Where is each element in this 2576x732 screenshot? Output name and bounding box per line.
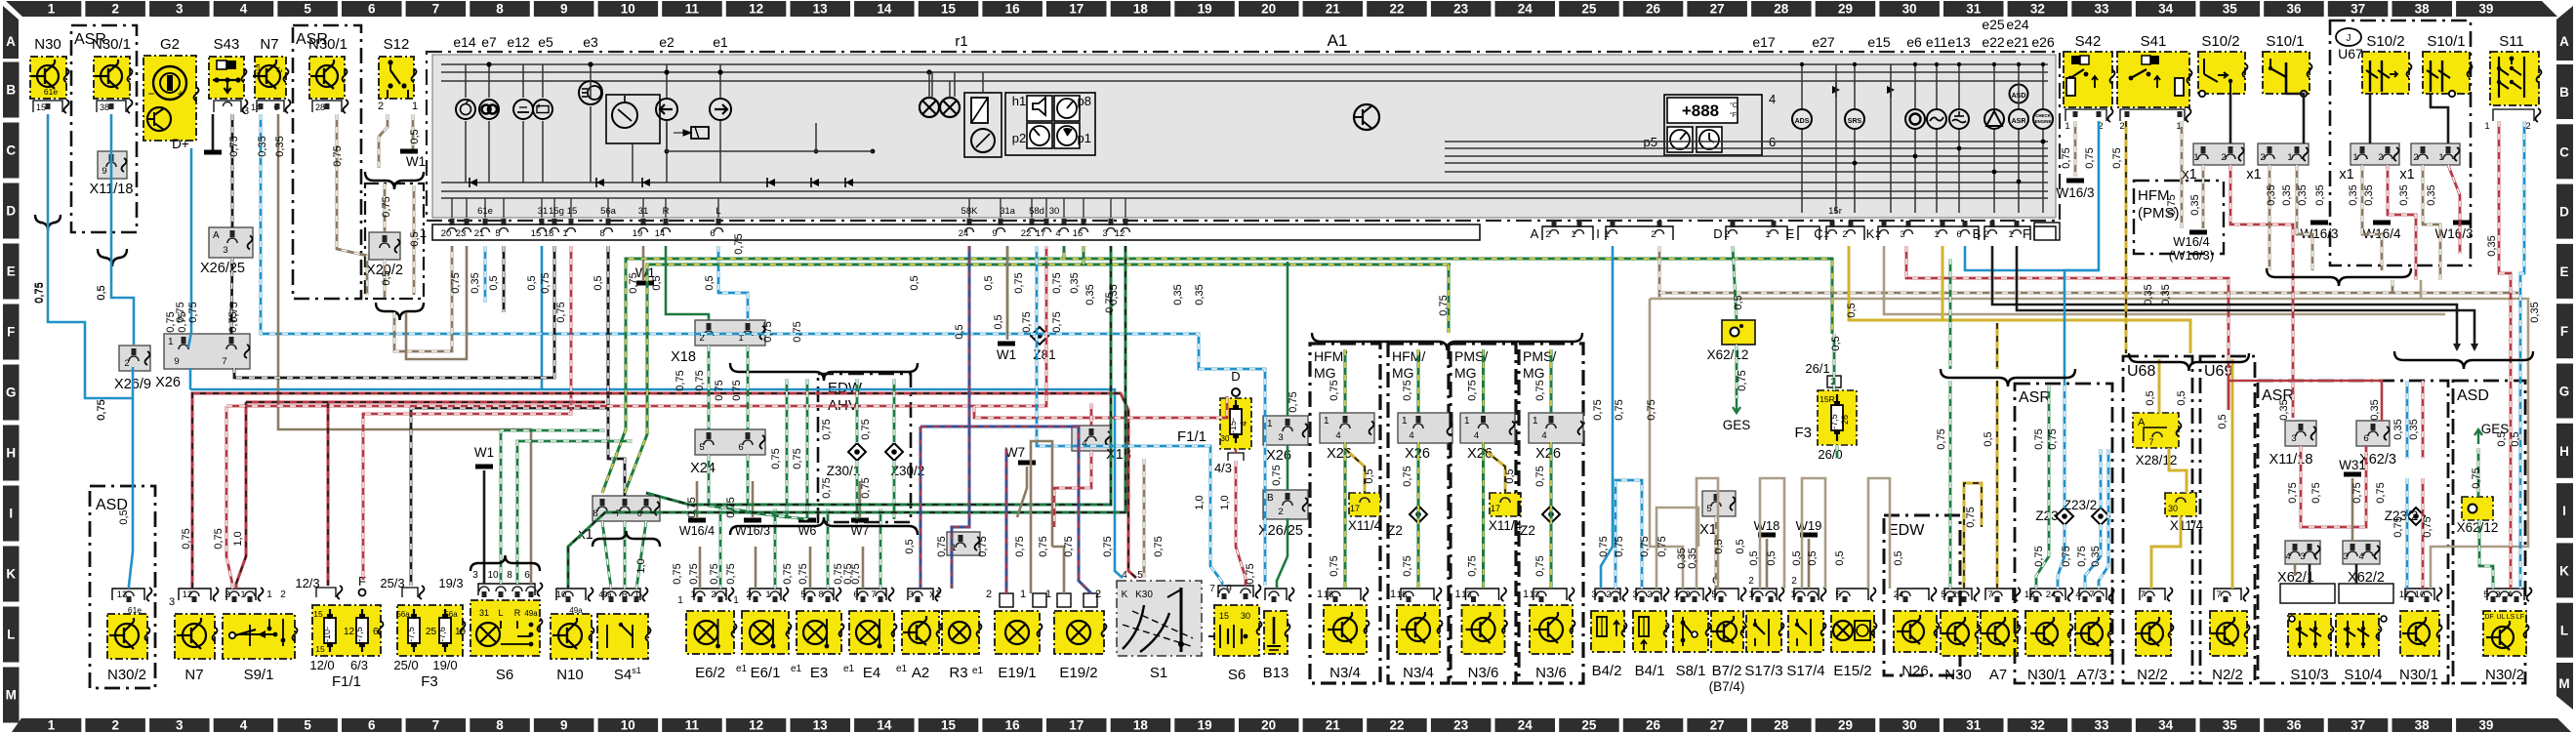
svg-text:N30/2: N30/2 bbox=[2485, 667, 2524, 683]
svg-text:R3: R3 bbox=[949, 665, 967, 681]
svg-text:10: 10 bbox=[556, 590, 567, 600]
wire S10/1 black link bbox=[2286, 94, 2304, 143]
wire x1 S10/2 brown bbox=[2202, 165, 2205, 228]
wire E6/1 pin1 wire bbox=[755, 547, 757, 589]
wire X18-X24 gnw b bbox=[747, 346, 750, 429]
svg-text:N30: N30 bbox=[34, 36, 61, 53]
svg-text:3: 3 bbox=[1900, 229, 1904, 240]
svg-text:W19: W19 bbox=[1796, 518, 1822, 533]
wire rdw horiz b bbox=[226, 246, 1046, 406]
wire I1 blue down bbox=[1601, 246, 1613, 589]
svg-text:E3: E3 bbox=[810, 665, 828, 681]
svg-text:1: 1 bbox=[2484, 121, 2489, 132]
control unit N3/4 bbox=[1328, 589, 1361, 600]
svg-text:R: R bbox=[622, 590, 629, 599]
svg-text:L: L bbox=[498, 608, 503, 618]
wire X62/3 red up bbox=[2228, 381, 2382, 421]
brace above U68 bbox=[2129, 353, 2249, 371]
svg-text:0,75: 0,75 bbox=[1402, 380, 1413, 400]
svg-text:0,75: 0,75 bbox=[187, 302, 199, 322]
svg-text:33: 33 bbox=[2094, 718, 2109, 732]
svg-text:e24: e24 bbox=[2006, 17, 2029, 32]
group U69 bbox=[2200, 356, 2255, 683]
svg-text:0,5: 0,5 bbox=[993, 314, 1004, 329]
svg-text:0,5: 0,5 bbox=[1893, 550, 1904, 565]
wire X26/9 bottom link bbox=[132, 367, 135, 398]
svg-text:12: 12 bbox=[344, 627, 355, 637]
wire brace A7 ye link bbox=[1996, 323, 1999, 369]
wire gnye drop HFM bbox=[1448, 264, 1451, 333]
svg-text:0,75: 0,75 bbox=[792, 321, 803, 342]
relay N10 bbox=[556, 589, 586, 600]
svg-text:3: 3 bbox=[908, 590, 913, 600]
svg-text:0,75: 0,75 bbox=[1598, 536, 1610, 556]
svg-text:26/0: 26/0 bbox=[1818, 447, 1842, 462]
wire x1 S10/1 browns bbox=[2269, 165, 2271, 270]
wire ASR cyan bbox=[2064, 386, 2066, 508]
svg-text:0,75: 0,75 bbox=[860, 419, 872, 439]
svg-text:3: 3 bbox=[2300, 551, 2305, 562]
svg-text:27: 27 bbox=[1710, 2, 1725, 17]
wire S6 W1 black bbox=[483, 470, 486, 584]
wire U69 feed bbox=[2231, 359, 2234, 589]
svg-text:0,35: 0,35 bbox=[1172, 284, 1184, 305]
svg-text:30: 30 bbox=[1049, 206, 1060, 217]
wire rdw feed to F1/1 D bbox=[974, 396, 1227, 418]
svg-text:X28/12: X28/12 bbox=[2136, 453, 2178, 468]
relay A7 bbox=[1985, 589, 2013, 600]
svg-text:2: 2 bbox=[2495, 590, 2500, 600]
wire Z81 brown bbox=[1006, 246, 1009, 332]
svg-text:F: F bbox=[2023, 226, 2030, 241]
svg-text:11: 11 bbox=[685, 718, 700, 732]
relay N30/2 b bbox=[2487, 589, 2524, 600]
svg-text:W1: W1 bbox=[406, 154, 426, 169]
svg-text:30: 30 bbox=[1902, 2, 1917, 17]
svg-text:1: 1 bbox=[1934, 229, 1939, 240]
indicator CHECK ENGINE bbox=[2033, 109, 2053, 129]
svg-text:G2: G2 bbox=[160, 36, 180, 53]
svg-text:N3/6: N3/6 bbox=[1535, 665, 1567, 681]
svg-text:15: 15 bbox=[315, 644, 325, 654]
wire brown bus drop S8/1 bbox=[1650, 299, 1683, 589]
svg-text:1: 1 bbox=[2352, 152, 2357, 163]
wire green vertical to B13 bbox=[1287, 262, 1289, 416]
svg-text:0,35: 0,35 bbox=[2297, 184, 2309, 205]
svg-text:0,75: 0,75 bbox=[731, 380, 743, 400]
unit e3 motor box bbox=[606, 95, 660, 143]
wire brown loop 1803 bbox=[1760, 478, 1784, 589]
svg-text:3: 3 bbox=[2343, 551, 2348, 562]
svg-text:21: 21 bbox=[1326, 2, 1341, 17]
svg-text:0,5: 0,5 bbox=[1504, 468, 1516, 483]
svg-text:17: 17 bbox=[1069, 718, 1084, 732]
wire X18-X24 gnw a bbox=[708, 346, 711, 429]
svg-text:E: E bbox=[1786, 226, 1795, 241]
svg-text:2: 2 bbox=[2378, 152, 2383, 163]
ground under S43 bbox=[212, 114, 215, 150]
wire ASR gn bbox=[2036, 386, 2049, 589]
svg-text:0,75: 0,75 bbox=[1534, 466, 1546, 486]
svg-text:2: 2 bbox=[1842, 229, 1847, 240]
svg-text:0,75: 0,75 bbox=[2310, 482, 2322, 503]
svg-text:56a: 56a bbox=[600, 206, 617, 217]
svg-text:12: 12 bbox=[749, 2, 763, 17]
svg-text:0,75: 0,75 bbox=[1656, 536, 1668, 556]
svg-text:14: 14 bbox=[655, 228, 666, 239]
svg-text:4: 4 bbox=[240, 718, 248, 732]
svg-text:2: 2 bbox=[711, 590, 716, 600]
svg-text:B7/2: B7/2 bbox=[1712, 663, 1742, 679]
wire U67 brw 1 bbox=[2362, 165, 2382, 270]
svg-text:13: 13 bbox=[117, 590, 128, 600]
svg-text:X11/4: X11/4 bbox=[1489, 518, 1523, 533]
svg-text:30: 30 bbox=[1221, 434, 1230, 443]
wire rdbk 12/3 horiz bbox=[246, 401, 605, 404]
svg-text:0,35: 0,35 bbox=[2281, 184, 2293, 205]
svg-text:L: L bbox=[635, 590, 640, 599]
svg-text:M: M bbox=[2558, 676, 2569, 691]
svg-text:F3: F3 bbox=[421, 673, 438, 690]
svg-text:E19/1: E19/1 bbox=[998, 665, 1036, 681]
wire U67 a black bbox=[2369, 94, 2372, 143]
svg-text:M: M bbox=[6, 688, 17, 703]
svg-text:e14: e14 bbox=[453, 34, 476, 50]
wire gnye bus A bbox=[602, 259, 1832, 493]
svg-text:e27: e27 bbox=[1812, 34, 1835, 50]
svg-text:0,5: 0,5 bbox=[1713, 539, 1725, 553]
svg-text:18: 18 bbox=[1133, 718, 1149, 732]
wire F3b green out bbox=[1836, 445, 1839, 459]
svg-text:+888: +888 bbox=[1682, 102, 1719, 120]
wire pin14 green to X18 bbox=[666, 246, 709, 320]
svg-text:2: 2 bbox=[111, 2, 119, 17]
wire X62/12 gnw down bbox=[1736, 345, 1738, 398]
svg-text:58K: 58K bbox=[961, 206, 979, 217]
svg-text:A: A bbox=[2559, 34, 2569, 49]
ground W1 top mid bbox=[636, 281, 654, 286]
ECU A1 instrument cluster panel bbox=[427, 52, 2060, 221]
switch S10/3 bbox=[2280, 584, 2335, 603]
svg-text:18: 18 bbox=[1133, 2, 1149, 17]
svg-text:0,75: 0,75 bbox=[688, 563, 700, 584]
svg-text:W7: W7 bbox=[1005, 445, 1025, 460]
indicator lamp e3 high beam bbox=[579, 81, 602, 104]
svg-text:CHECK: CHECK bbox=[2035, 113, 2051, 118]
svg-text:36: 36 bbox=[2286, 2, 2302, 17]
svg-text:2: 2 bbox=[1724, 229, 1729, 240]
svg-text:4: 4 bbox=[1541, 430, 1546, 441]
svg-text:F1/1: F1/1 bbox=[1177, 428, 1206, 445]
wire U67 brw 2 bbox=[2423, 165, 2440, 280]
relay N2/2 bbox=[2140, 589, 2165, 600]
wire X62/12b out bbox=[2479, 520, 2493, 589]
svg-text:32: 32 bbox=[2030, 718, 2045, 732]
wire N30/1c red bbox=[2422, 381, 2425, 459]
svg-text:2: 2 bbox=[1685, 590, 1690, 600]
wire X1 pin5 down bbox=[1715, 516, 1718, 589]
wire X26/9 to N30/2 blue bbox=[129, 398, 133, 589]
indicator lamp e7 bbox=[479, 100, 499, 119]
svg-text:N3/4: N3/4 bbox=[1403, 665, 1434, 681]
svg-text:K30: K30 bbox=[1135, 590, 1153, 600]
wire K3 red bbox=[1906, 246, 2228, 410]
svg-text:4: 4 bbox=[1122, 570, 1127, 581]
svg-text:HFM/: HFM/ bbox=[1392, 348, 1425, 364]
connector X62/2 bbox=[2343, 541, 2380, 564]
svg-text:9: 9 bbox=[174, 356, 179, 367]
svg-text:0,5: 0,5 bbox=[2496, 431, 2508, 446]
wire yebk to A7 bbox=[1996, 381, 1999, 589]
svg-text:5: 5 bbox=[1706, 504, 1711, 514]
wire N30/1 blue bbox=[111, 114, 134, 345]
wire EDW inner b bbox=[893, 379, 896, 443]
svg-text:2: 2 bbox=[1278, 507, 1283, 517]
wire E3 ground wire bbox=[806, 481, 809, 518]
svg-text:4: 4 bbox=[2075, 590, 2080, 600]
svg-text:0,5: 0,5 bbox=[526, 275, 538, 290]
svg-text:N30/1: N30/1 bbox=[92, 36, 131, 53]
svg-text:25/3: 25/3 bbox=[380, 576, 404, 590]
svg-text:S43: S43 bbox=[214, 36, 240, 53]
svg-text:0,5: 0,5 bbox=[409, 231, 421, 246]
svg-text:0,5: 0,5 bbox=[2217, 414, 2228, 428]
wire brown loop 1846 bbox=[1802, 478, 1825, 589]
svg-text:24: 24 bbox=[2046, 590, 2057, 600]
svg-text:S8/1: S8/1 bbox=[1676, 663, 1706, 679]
indicator fuel bbox=[1927, 109, 1946, 129]
diode Z81 bbox=[1031, 327, 1048, 345]
svg-text:20: 20 bbox=[441, 228, 452, 239]
svg-text:G: G bbox=[6, 386, 17, 400]
svg-text:-7,5: -7,5 bbox=[1829, 414, 1839, 429]
svg-text:Z30/1: Z30/1 bbox=[827, 464, 861, 478]
svg-text:X26: X26 bbox=[1535, 446, 1561, 462]
svg-text:0,5: 0,5 bbox=[1834, 550, 1846, 565]
svg-text:1: 1 bbox=[1390, 589, 1396, 600]
wire N30/1c cyan2 bbox=[2406, 478, 2409, 589]
svg-text:0,75: 0,75 bbox=[1534, 380, 1546, 400]
svg-text:0,75: 0,75 bbox=[2111, 147, 2123, 168]
svg-text:(B7/4): (B7/4) bbox=[1709, 679, 1745, 694]
svg-text:B4/1: B4/1 bbox=[1635, 663, 1665, 679]
svg-text:0,35: 0,35 bbox=[2529, 302, 2541, 322]
svg-text:2: 2 bbox=[1983, 229, 1988, 240]
svg-text:49a: 49a bbox=[598, 590, 612, 599]
svg-text:p1: p1 bbox=[1078, 131, 1091, 145]
svg-text:15: 15 bbox=[36, 102, 46, 112]
wire U67 rdw 2 bbox=[2448, 165, 2460, 254]
connector under N30 bbox=[33, 101, 62, 112]
svg-text:6: 6 bbox=[738, 442, 743, 453]
ground W1 left bbox=[475, 465, 493, 469]
svg-text:0,75: 0,75 bbox=[228, 136, 240, 156]
svg-text:−: − bbox=[147, 87, 154, 101]
svg-text:0,35: 0,35 bbox=[2369, 399, 2381, 420]
connector X1 bbox=[1702, 491, 1736, 516]
svg-text:21: 21 bbox=[474, 228, 485, 239]
wire N3/4 gn-ye mid bbox=[1344, 442, 1347, 589]
wire x1 to S4 c bbox=[636, 521, 646, 589]
wire x1 S10/2 black bbox=[2229, 94, 2232, 143]
svg-text:0,75: 0,75 bbox=[675, 370, 686, 390]
svg-text:S10/2: S10/2 bbox=[2201, 33, 2239, 50]
svg-text:0,5: 0,5 bbox=[909, 275, 920, 290]
control unit N3/6 bbox=[1466, 589, 1499, 600]
svg-text:17: 17 bbox=[1350, 504, 1360, 513]
svg-text:1: 1 bbox=[1045, 589, 1051, 600]
wire X26 red c bbox=[236, 402, 246, 589]
wire X26 pin9 stub bbox=[189, 368, 192, 389]
wire green vertical mid bbox=[1287, 445, 1289, 490]
svg-text:W1: W1 bbox=[997, 347, 1016, 362]
svg-text:61e: 61e bbox=[128, 605, 142, 615]
wire ASR cyan 2 bbox=[2100, 449, 2103, 508]
wire ASR cyan b bbox=[2058, 524, 2065, 589]
svg-text:0,75: 0,75 bbox=[1936, 428, 1947, 449]
svg-text:e1: e1 bbox=[791, 664, 802, 674]
ground W18 bbox=[1758, 533, 1776, 538]
svg-text:A: A bbox=[213, 230, 220, 241]
svg-text:-15-: -15- bbox=[1228, 418, 1238, 433]
connector under S41 bbox=[2120, 109, 2185, 121]
svg-text:0,75: 0,75 bbox=[1614, 399, 1625, 420]
svg-text:24: 24 bbox=[1518, 2, 1533, 17]
svg-text:S42: S42 bbox=[2075, 33, 2102, 50]
wire N3/6 gn-ye feed bbox=[1482, 349, 1485, 413]
wire N30/1c red2 bbox=[2422, 478, 2425, 589]
svg-text:HFM/: HFM/ bbox=[1314, 348, 1347, 364]
svg-text:6: 6 bbox=[2363, 433, 2368, 444]
wire N3/6 gn-ye feed bbox=[1550, 349, 1553, 413]
svg-text:5: 5 bbox=[1941, 590, 1945, 600]
brace S6 top bbox=[470, 555, 540, 571]
svg-text:MG: MG bbox=[1523, 365, 1545, 381]
svg-text:MG: MG bbox=[1454, 365, 1477, 381]
wire gnye bus A pin4 bbox=[1063, 246, 1066, 259]
svg-text:12/0: 12/0 bbox=[309, 658, 334, 672]
svg-text:16: 16 bbox=[1005, 718, 1021, 732]
wire N30/1c cyan bbox=[2406, 381, 2409, 459]
svg-text:N26: N26 bbox=[1901, 663, 1929, 679]
svg-text:0,75: 0,75 bbox=[1051, 311, 1063, 332]
svg-text:3: 3 bbox=[2291, 433, 2296, 444]
svg-text:61e: 61e bbox=[477, 206, 493, 217]
svg-text:S10/4: S10/4 bbox=[2344, 667, 2382, 683]
wire gnbk pin3 bbox=[646, 246, 1111, 505]
svg-text:N3/6: N3/6 bbox=[1468, 665, 1499, 681]
group ASR bottom right bbox=[2258, 381, 2448, 683]
svg-text:19/0: 19/0 bbox=[432, 658, 457, 672]
indicator brake ring bbox=[1905, 109, 1925, 129]
wire ASR brw pair bbox=[2294, 564, 2297, 576]
wire X24 to EDW a bbox=[709, 455, 787, 517]
svg-text:Z23: Z23 bbox=[2035, 508, 2058, 523]
connector X26 of N3/6 bbox=[1529, 413, 1583, 443]
wire brown bus 2 bbox=[1659, 292, 2518, 295]
wire pin23 br bbox=[406, 246, 467, 359]
wire S43 to X26/25 bbox=[231, 114, 234, 227]
display cluster p5 (+888) bbox=[1664, 95, 1762, 155]
connector under N30/1 b bbox=[312, 101, 342, 112]
svg-text:29: 29 bbox=[1838, 2, 1853, 17]
wire N30/1b brown bbox=[337, 114, 367, 295]
svg-text:0,35: 0,35 bbox=[2363, 184, 2375, 205]
svg-text:25: 25 bbox=[1581, 2, 1597, 17]
svg-text:0,75: 0,75 bbox=[782, 563, 794, 584]
wire pin8b bkw to 19-3 bbox=[411, 246, 608, 586]
svg-text:1: 1 bbox=[48, 2, 56, 17]
svg-text:26: 26 bbox=[1646, 718, 1661, 732]
connector X11/4 of N3/6 bbox=[1490, 493, 1521, 516]
wire ASD gn feed bbox=[2477, 448, 2480, 497]
svg-text:0,75: 0,75 bbox=[770, 448, 782, 468]
svg-text:1,0: 1,0 bbox=[1194, 495, 1206, 509]
svg-text:35: 35 bbox=[2223, 718, 2238, 732]
svg-text:17: 17 bbox=[1069, 2, 1084, 17]
svg-text:0,75: 0,75 bbox=[1038, 536, 1049, 556]
svg-text:1: 1 bbox=[1324, 416, 1329, 427]
svg-text:I: I bbox=[1596, 226, 1600, 241]
wire EDW green b bbox=[806, 379, 809, 519]
connector X11/18 bbox=[98, 151, 127, 179]
svg-text:G: G bbox=[2559, 385, 2570, 399]
svg-text:15g: 15g bbox=[549, 206, 564, 217]
svg-text:24: 24 bbox=[1894, 590, 1904, 600]
svg-text:1: 1 bbox=[733, 595, 739, 606]
brace above S4 x1 bbox=[593, 531, 660, 547]
connector under N7 bbox=[257, 101, 284, 112]
svg-text:0,75: 0,75 bbox=[2351, 482, 2363, 503]
connector X26/25 bbox=[209, 227, 253, 258]
svg-text:24: 24 bbox=[1518, 718, 1533, 732]
control unit N3/6 bbox=[1533, 589, 1567, 600]
diode Z2 of N3/4 bbox=[1410, 506, 1427, 523]
svg-text:34: 34 bbox=[2158, 718, 2174, 732]
svg-text:49a: 49a bbox=[569, 606, 583, 615]
svg-text:X1: X1 bbox=[1699, 522, 1717, 538]
svg-text:A7/3: A7/3 bbox=[2077, 667, 2107, 683]
svg-text:x1: x1 bbox=[2246, 167, 2261, 183]
connector X62/12 b bbox=[2462, 497, 2493, 520]
svg-text:2: 2 bbox=[2525, 121, 2530, 132]
svg-text:0,35: 0,35 bbox=[257, 136, 268, 156]
svg-text:28: 28 bbox=[1774, 2, 1789, 17]
svg-text:30: 30 bbox=[1241, 611, 1250, 621]
wire x1 S10/2 red cross bbox=[2230, 165, 2293, 418]
svg-text:E4: E4 bbox=[863, 665, 880, 681]
svg-text:12: 12 bbox=[2399, 590, 2410, 600]
svg-text:31a: 31a bbox=[1000, 206, 1016, 217]
ground W16/3 b bbox=[2310, 221, 2328, 225]
svg-text:0,75: 0,75 bbox=[2033, 546, 2045, 566]
svg-text:0,75: 0,75 bbox=[1402, 466, 1413, 486]
wire B2 black bbox=[1992, 246, 2457, 349]
indicator warning triangle bbox=[1984, 109, 2004, 129]
wire N3/6 ye branch bbox=[1484, 449, 1506, 493]
svg-text:0,35: 0,35 bbox=[2348, 184, 2359, 205]
svg-text:0,75: 0,75 bbox=[1014, 536, 1026, 556]
group EDW AHV bbox=[730, 363, 918, 381]
ground W16/3 c bbox=[2453, 221, 2471, 225]
switch S8/1 bbox=[1677, 589, 1703, 600]
wire brown loop 1914 bbox=[1868, 478, 1890, 589]
svg-text:F1/1: F1/1 bbox=[332, 673, 361, 690]
sensor B13 bbox=[1265, 589, 1287, 600]
svg-text:30: 30 bbox=[2168, 504, 2178, 513]
svg-text:0,75: 0,75 bbox=[175, 302, 186, 322]
svg-text:3: 3 bbox=[169, 596, 175, 608]
